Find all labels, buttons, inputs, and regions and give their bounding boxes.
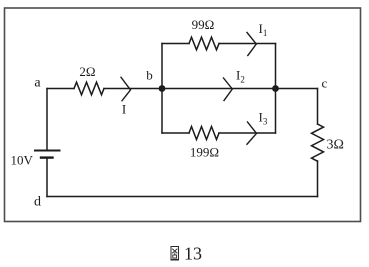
svg-text:c: c (322, 76, 328, 91)
wire bottom branch up to junction (275, 89, 277, 134)
svg-text:I3: I3 (259, 110, 268, 127)
wire a to resistor R1 (47, 88, 74, 90)
wire battery down to bottom wire (46, 158, 48, 197)
caption glyph "tu" (figure) (171, 247, 179, 261)
svg-text:2Ω: 2Ω (79, 64, 95, 79)
resistor R3 199ohm (189, 127, 219, 140)
svg-text:13: 13 (184, 244, 202, 264)
svg-text:I1: I1 (259, 21, 268, 38)
wire top branch left (162, 43, 189, 45)
wire b down to bottom branch (161, 89, 163, 134)
svg-text:I2: I2 (236, 68, 245, 85)
wire middle branch b to c (162, 88, 318, 90)
border frame (5, 8, 361, 222)
wire c down to resistor R4 (317, 89, 319, 125)
node b junction dot (159, 85, 166, 92)
svg-text:d: d (34, 195, 41, 210)
svg-text:10V: 10V (11, 153, 34, 168)
wire R1 to node b (104, 88, 162, 90)
wire bottom branch left (162, 132, 189, 134)
svg-text:a: a (34, 76, 41, 91)
current arrow I2 (224, 78, 233, 101)
resistor R2 99ohm (189, 37, 219, 50)
current arrow I1 (247, 33, 256, 56)
svg-text:b: b (146, 68, 153, 83)
svg-text:99Ω: 99Ω (192, 17, 215, 32)
junction dot right (272, 85, 279, 92)
resistor R4 3ohm vertical (312, 124, 324, 161)
wire b up to top branch (161, 44, 163, 89)
resistor R1 2ohm (74, 82, 104, 95)
wire a down to battery (46, 89, 48, 151)
wire R4 down to bottom (317, 161, 319, 197)
svg-text:I: I (122, 102, 126, 117)
battery V1 long plate (35, 150, 60, 152)
battery V1 short plate (41, 156, 53, 158)
wire top branch down to junction (275, 44, 277, 89)
wire top branch right (219, 43, 276, 45)
wire bottom branch right (219, 132, 276, 134)
svg-text:199Ω: 199Ω (190, 145, 219, 160)
svg-text:3Ω: 3Ω (327, 138, 344, 153)
bottom wire (47, 196, 318, 198)
current arrow I3 (247, 122, 257, 144)
current arrow I (121, 77, 131, 100)
